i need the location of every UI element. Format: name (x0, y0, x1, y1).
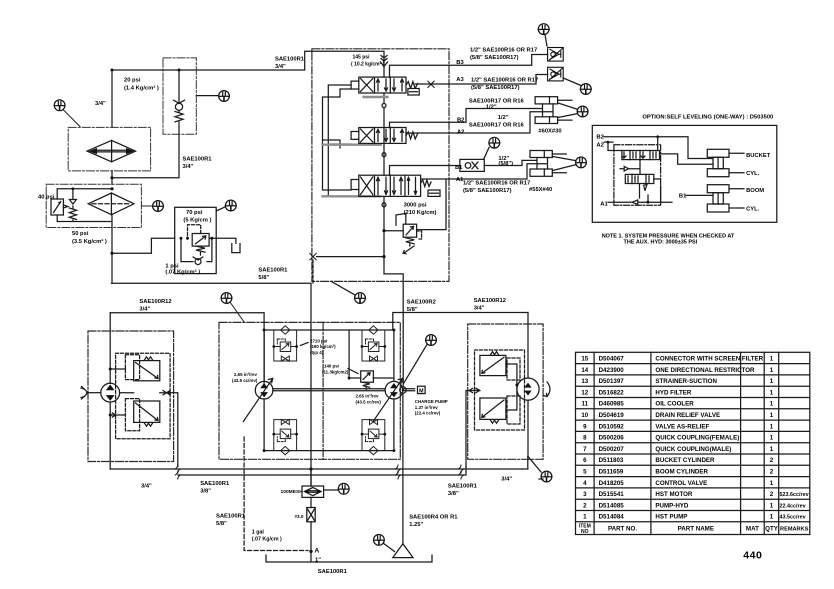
svg-text:5/8": 5/8" (216, 521, 227, 527)
svg-text:PART NO.: PART NO. (608, 526, 637, 533)
svg-text:D460985: D460985 (599, 401, 625, 408)
svg-text:B2: B2 (596, 135, 603, 141)
svg-text:D511803: D511803 (599, 457, 624, 464)
svg-text:SAE100R12: SAE100R12 (139, 299, 171, 305)
svg-text:1.37 in³/rev: 1.37 in³/rev (415, 405, 438, 410)
svg-text:QUICK COUPLING(MALE): QUICK COUPLING(MALE) (655, 446, 731, 453)
svg-text:BOOM CYLINDER: BOOM CYLINDER (655, 469, 708, 476)
svg-text:2: 2 (770, 469, 774, 476)
svg-text:#60X#30: #60X#30 (538, 129, 561, 135)
svg-text:PART NAME: PART NAME (678, 526, 714, 533)
svg-text:HYD FILTER: HYD FILTER (655, 389, 692, 396)
svg-text:(.07 Kg/cm² ): (.07 Kg/cm² ) (165, 269, 200, 276)
svg-text:13: 13 (581, 378, 588, 385)
svg-text:SAE100R1: SAE100R1 (258, 268, 288, 274)
svg-text:BOOM: BOOM (746, 188, 764, 194)
svg-text:SAE100R2: SAE100R2 (407, 300, 436, 306)
svg-text:3/4": 3/4" (139, 307, 150, 313)
svg-text:(5/8" SAE100R17): (5/8" SAE100R17) (471, 85, 520, 91)
svg-text:3000 psi: 3000 psi (404, 203, 427, 209)
svg-text:1.25": 1.25" (409, 522, 423, 528)
svg-text:145 psi: 145 psi (353, 55, 371, 61)
svg-text:1/2" SAE100R16 OR R17: 1/2" SAE100R16 OR R17 (470, 48, 537, 54)
svg-text:D515541: D515541 (599, 491, 625, 498)
svg-text:1/2": 1/2" (498, 115, 509, 121)
svg-text:1: 1 (770, 412, 774, 419)
svg-text:A2: A2 (457, 130, 464, 136)
svg-text:9: 9 (583, 423, 587, 430)
svg-text:D501397: D501397 (599, 378, 625, 385)
svg-text:CYL.: CYL. (746, 207, 760, 213)
svg-text:1: 1 (770, 356, 774, 363)
svg-text:SAE100R17 OR R16: SAE100R17 OR R16 (469, 122, 525, 128)
svg-text:D504619: D504619 (599, 412, 625, 419)
svg-text:3/4": 3/4" (183, 164, 194, 170)
svg-text:SAE100R1: SAE100R1 (318, 569, 348, 575)
svg-text:A: A (315, 548, 320, 555)
svg-text:1: 1 (770, 514, 774, 521)
svg-text:2710 psi: 2710 psi (310, 339, 327, 344)
svg-text:(typ 4): (typ 4) (310, 350, 324, 355)
svg-text:REMARKS: REMARKS (780, 527, 809, 533)
svg-text:11: 11 (582, 401, 589, 408)
svg-text:A1: A1 (600, 202, 608, 208)
svg-text:CONNECTOR WITH SCREEN FILTER: CONNECTOR WITH SCREEN FILTER (655, 356, 763, 363)
svg-text:D514085: D514085 (599, 502, 625, 509)
svg-text:10: 10 (581, 412, 588, 419)
svg-text:SAE100R1: SAE100R1 (275, 57, 305, 63)
svg-text:BUCKET CYLINDER: BUCKET CYLINDER (655, 457, 715, 464)
svg-text:HST PUMP: HST PUMP (655, 514, 687, 521)
svg-text:(5/8" SAE100R17): (5/8" SAE100R17) (463, 188, 512, 194)
svg-text:#3.0: #3.0 (295, 514, 304, 519)
svg-text:70 psi: 70 psi (186, 210, 203, 216)
svg-text:3/4": 3/4" (275, 64, 286, 70)
svg-text:VALVE AS-RELIEF: VALVE AS-RELIEF (655, 423, 709, 430)
svg-text:3/8": 3/8" (448, 491, 459, 497)
svg-text:SAE100R4 OR R1: SAE100R4 OR R1 (409, 515, 458, 521)
svg-text:ONE DIRECTIONAL RESTRICTOR: ONE DIRECTIONAL RESTRICTOR (655, 367, 755, 374)
svg-text:1: 1 (770, 389, 774, 396)
svg-text:3/4": 3/4" (501, 477, 512, 483)
svg-text:6: 6 (583, 457, 587, 464)
svg-text:D504067: D504067 (599, 356, 625, 363)
svg-text:OIL COOLER: OIL COOLER (655, 401, 694, 408)
svg-text:B2: B2 (457, 118, 464, 124)
svg-text:1: 1 (770, 401, 774, 408)
svg-text:(5/8"): (5/8") (498, 161, 513, 167)
svg-text:DRAIN RELIEF VALVE: DRAIN RELIEF VALVE (655, 412, 720, 419)
svg-text:MAT: MAT (746, 526, 759, 533)
svg-text:1 gal: 1 gal (252, 530, 265, 536)
svg-text:NO: NO (581, 529, 589, 535)
svg-text:QTY: QTY (765, 526, 779, 533)
svg-text:1/2" SAE100R16 OR R17: 1/2" SAE100R16 OR R17 (471, 78, 538, 84)
svg-text:8: 8 (583, 435, 587, 442)
svg-text:22.4cc/rev: 22.4cc/rev (780, 503, 806, 509)
svg-text:1 psi: 1 psi (165, 264, 179, 270)
svg-text:1": 1" (315, 558, 321, 564)
svg-text:3/4": 3/4" (141, 484, 152, 490)
svg-text:(43.5 cc/rev): (43.5 cc/rev) (356, 400, 382, 405)
svg-text:(190 kg/cm²): (190 kg/cm²) (310, 344, 336, 349)
svg-text:D516822: D516822 (599, 389, 625, 396)
svg-text:440: 440 (743, 550, 762, 562)
svg-text:M: M (419, 389, 424, 395)
svg-text:1: 1 (770, 502, 774, 509)
svg-text:#55X#40: #55X#40 (529, 187, 552, 193)
svg-text:CYL.: CYL. (746, 171, 760, 177)
svg-text:D511659: D511659 (599, 469, 624, 476)
svg-text:CHARGE PUMP: CHARGE PUMP (415, 399, 448, 404)
svg-text:( 10.2 kg/cm² ): ( 10.2 kg/cm² ) (351, 62, 385, 68)
svg-text:D423900: D423900 (599, 367, 625, 374)
svg-text:STRAINER-SUCTION: STRAINER-SUCTION (655, 378, 717, 385)
svg-text:BUCKET: BUCKET (746, 153, 771, 159)
svg-text:A2: A2 (596, 142, 603, 148)
svg-text:15: 15 (581, 356, 588, 363)
svg-text:CONTROL VALVE: CONTROL VALVE (655, 480, 707, 487)
svg-text:(11.3kg/cm2): (11.3kg/cm2) (322, 370, 349, 375)
svg-text:12: 12 (581, 389, 588, 396)
svg-text:OPTION:SELF LEVELING (ONE-WAY): OPTION:SELF LEVELING (ONE-WAY) : D503500 (642, 115, 773, 121)
svg-text:140 psi: 140 psi (324, 364, 339, 369)
svg-text:100MESH: 100MESH (281, 489, 304, 495)
svg-text:SAE100R17 OR R16: SAE100R17 OR R16 (469, 99, 525, 105)
svg-text:3/4": 3/4" (474, 306, 485, 312)
svg-text:1: 1 (770, 435, 774, 442)
svg-text:D514084: D514084 (599, 514, 625, 521)
svg-text:D418205: D418205 (599, 480, 625, 487)
svg-text:1: 1 (583, 514, 587, 521)
svg-text:(.07 Kg/cm ): (.07 Kg/cm ) (252, 537, 282, 543)
svg-text:1: 1 (770, 423, 774, 430)
svg-text:(3.5 Kg/cm² ): (3.5 Kg/cm² ) (72, 238, 107, 245)
svg-text:4: 4 (583, 480, 587, 487)
svg-text:(5/8" SAE100R17): (5/8" SAE100R17) (470, 55, 519, 61)
svg-text:SAE100R12: SAE100R12 (474, 298, 506, 304)
svg-text:(43.5 cc/rev): (43.5 cc/rev) (232, 378, 258, 383)
svg-text:SAE100R1: SAE100R1 (183, 157, 213, 163)
svg-text:(22.4 cc/rev): (22.4 cc/rev) (415, 411, 441, 416)
svg-text:5: 5 (583, 469, 587, 476)
svg-text:D510592: D510592 (599, 423, 625, 430)
svg-text:B1: B1 (679, 194, 687, 200)
svg-text:SAE100R1: SAE100R1 (200, 481, 230, 487)
svg-text:20 psi: 20 psi (124, 78, 141, 84)
svg-text:3/4": 3/4" (95, 101, 106, 107)
svg-text:43.5cc/rev: 43.5cc/rev (780, 515, 806, 521)
svg-text:(5 Kg/cm ): (5 Kg/cm ) (183, 218, 211, 224)
svg-text:1: 1 (770, 367, 774, 374)
svg-text:PUMP-HYD: PUMP-HYD (655, 502, 689, 509)
svg-text:HST MOTOR: HST MOTOR (655, 491, 693, 498)
svg-text:2: 2 (770, 491, 774, 498)
svg-text:A3: A3 (456, 77, 464, 83)
svg-text:(210 Kg/cm): (210 Kg/cm) (404, 210, 437, 216)
svg-text:2: 2 (770, 457, 774, 464)
svg-text:D500206: D500206 (599, 435, 625, 442)
svg-text:7: 7 (583, 446, 587, 453)
svg-text:(1.4 Kg/cm² ): (1.4 Kg/cm² ) (124, 85, 159, 92)
svg-text:QUICK COUPLING(FEMALE): QUICK COUPLING(FEMALE) (655, 435, 739, 442)
svg-text:1: 1 (770, 446, 774, 453)
svg-text:1: 1 (770, 480, 774, 487)
svg-text:2.65 in³/rev: 2.65 in³/rev (234, 372, 257, 377)
svg-text:2: 2 (583, 502, 587, 509)
svg-text:5/8": 5/8" (258, 275, 269, 281)
svg-text:1/2" SAE100R16 OR R17: 1/2" SAE100R16 OR R17 (463, 181, 530, 187)
svg-text:2.65 in³/rev: 2.65 in³/rev (356, 394, 379, 399)
svg-text:B3: B3 (456, 60, 464, 66)
svg-text:14: 14 (581, 367, 588, 374)
svg-text:1/2": 1/2" (486, 105, 497, 111)
svg-text:D500207: D500207 (599, 446, 625, 453)
svg-text:3: 3 (583, 491, 587, 498)
svg-text:523.6cc/rev: 523.6cc/rev (780, 492, 809, 498)
svg-text:40 psi: 40 psi (38, 195, 55, 201)
svg-text:3/8": 3/8" (200, 489, 211, 495)
svg-text:1: 1 (770, 378, 774, 385)
svg-text:50 psi: 50 psi (72, 231, 89, 237)
svg-text:SAE100R1: SAE100R1 (216, 514, 246, 520)
svg-text:B1: B1 (455, 165, 463, 171)
svg-text:SAE100R1: SAE100R1 (448, 483, 478, 489)
svg-text:THE AUX. HYD: 3000±35 PSI: THE AUX. HYD: 3000±35 PSI (624, 239, 698, 245)
